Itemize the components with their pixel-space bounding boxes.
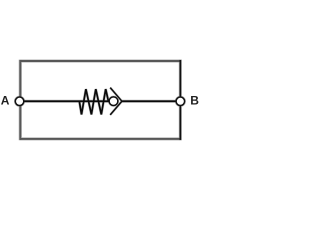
spring	[79, 89, 108, 114]
soft halo: frame right edge	[179, 60, 182, 141]
soft halo: wire vertex-B	[122, 100, 180, 103]
enclosure frame: bottom edge	[20, 138, 181, 140]
soft halo: frame left edge	[19, 60, 22, 141]
soft halo: spring	[79, 89, 108, 114]
port node A	[15, 97, 24, 106]
enclosure frame: left edge	[19, 60, 21, 140]
soft halo: valve seat	[110, 88, 122, 115]
soft halo: frame bottom edge	[19, 137, 181, 140]
valve seat	[110, 88, 122, 115]
enclosure frame: top edge	[20, 60, 181, 62]
soft halo: frame top edge	[19, 59, 181, 62]
soft halo: ball	[109, 97, 118, 106]
wire A to ball	[20, 100, 113, 102]
svg-text:A: A	[1, 93, 10, 107]
wire seat vertex to B	[122, 100, 180, 102]
enclosure frame: right edge	[179, 60, 181, 140]
svg-text:B: B	[190, 93, 199, 107]
soft halo: node A	[15, 97, 24, 106]
port node B	[176, 97, 185, 106]
soft halo: node B	[176, 97, 185, 106]
soft halo: wire A-ball	[20, 100, 113, 103]
check valve ball	[109, 97, 118, 106]
